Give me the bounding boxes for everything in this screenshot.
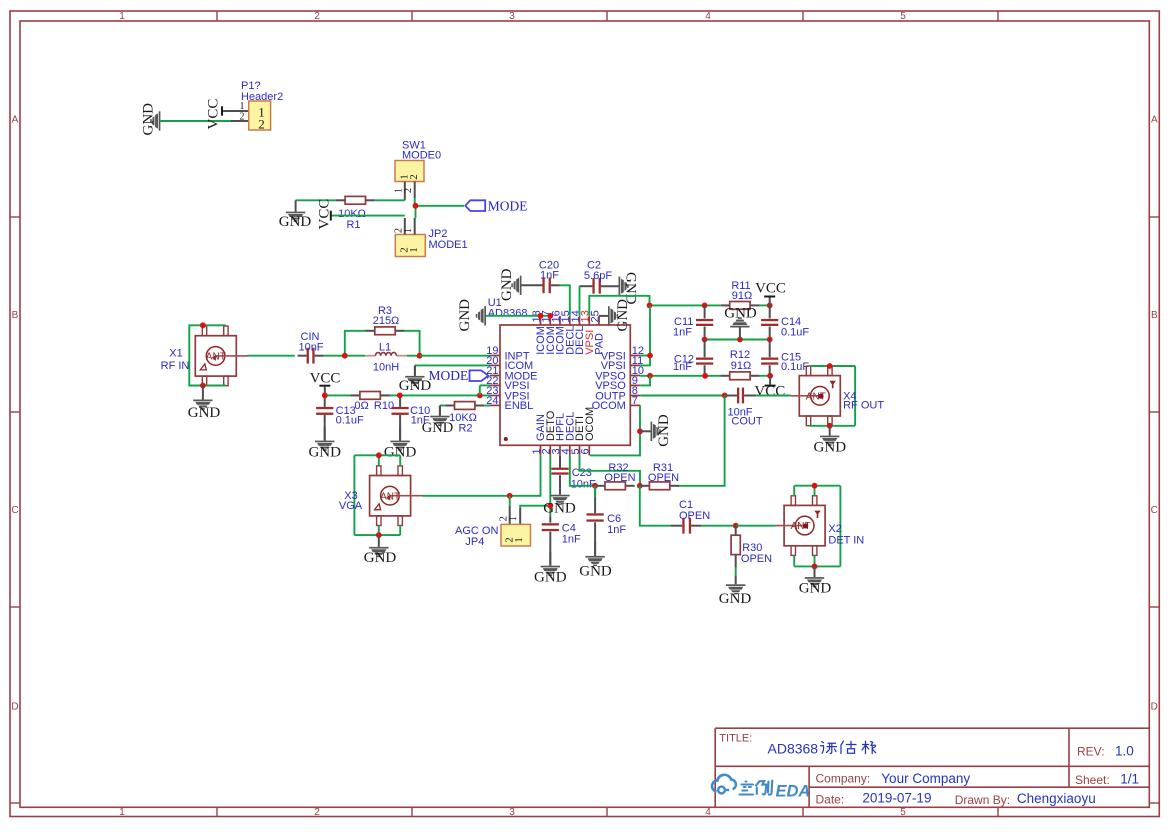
ground X2 <box>805 566 824 587</box>
ground OCOM <box>640 430 651 432</box>
ground PAD pin25 <box>599 315 608 317</box>
node rail1 left <box>647 303 653 309</box>
wire rail2 <box>705 339 770 341</box>
svg-text:6: 6 <box>580 448 592 454</box>
node pin18 <box>538 313 544 319</box>
wire OCOM down <box>590 405 640 455</box>
wire DECL to R32 <box>570 455 595 485</box>
capacitor C1 OPEN <box>670 525 682 527</box>
svg-text:X2: X2 <box>828 523 841 535</box>
svg-text:GND: GND <box>615 299 631 332</box>
wire X3 bottom <box>354 534 400 536</box>
ground X4 <box>820 426 839 446</box>
svg-text:GND: GND <box>457 299 473 332</box>
node rail3 C12 <box>702 373 708 379</box>
node X4 bottom <box>827 423 833 429</box>
wire COUT to X4 <box>756 395 791 397</box>
ground C20 <box>511 276 521 295</box>
svg-text:91Ω: 91Ω <box>731 360 751 372</box>
ground rail2 (inverted) <box>739 327 741 340</box>
node rail2 C11/C12 <box>702 337 708 343</box>
resistor R12 <box>720 375 729 377</box>
ground R2 <box>430 406 449 426</box>
capacitor C23 10nF <box>559 455 561 468</box>
svg-text:GND: GND <box>799 581 832 597</box>
wire OUTP <box>640 395 726 397</box>
wire CIN to L1 node <box>324 355 345 357</box>
svg-text:MODE0: MODE0 <box>402 150 441 162</box>
resistor R11 <box>720 304 729 306</box>
resistor R1 <box>336 199 345 201</box>
resistor R2 <box>445 405 454 407</box>
wire rail3 right <box>759 375 770 377</box>
wire pin22 drop <box>479 385 481 395</box>
svg-text:Chengxiaoyu: Chengxiaoyu <box>1017 791 1096 806</box>
wire X1 shield loop <box>189 325 226 385</box>
node X2 top <box>812 483 818 489</box>
svg-text:2019-07-19: 2019-07-19 <box>862 791 931 806</box>
title block <box>715 728 1149 807</box>
svg-text:2: 2 <box>314 807 320 818</box>
wire GAIN <box>510 455 541 495</box>
svg-text:MODE: MODE <box>429 368 469 383</box>
svg-text:2: 2 <box>314 11 320 22</box>
svg-text:OPEN: OPEN <box>604 472 635 484</box>
capacitor C11 1nF <box>704 305 706 318</box>
svg-text:2: 2 <box>258 117 265 132</box>
node X2 bottom <box>812 564 818 570</box>
svg-text:ENBL: ENBL <box>505 400 534 412</box>
capacitor C20 1nF <box>522 284 543 286</box>
node rail3 VCC <box>767 373 773 379</box>
svg-text:C23: C23 <box>572 467 592 479</box>
node rail1 C11 <box>702 303 708 309</box>
ground C6 <box>585 542 604 566</box>
ground C13 <box>315 427 334 451</box>
U1 left pins 19-24 <box>490 355 500 357</box>
VCC power P1 <box>221 106 223 115</box>
svg-text:1: 1 <box>119 807 125 818</box>
svg-text:7: 7 <box>632 395 638 407</box>
node L1 right node <box>417 353 423 359</box>
svg-text:GND: GND <box>656 414 672 447</box>
node C10 node <box>397 393 403 399</box>
node pin12 node <box>647 353 653 359</box>
antenna X1 <box>195 326 247 386</box>
svg-text:R1: R1 <box>346 219 360 231</box>
ground P1 <box>150 111 160 130</box>
wire X3 ANT out <box>422 495 510 497</box>
wire DETO down <box>549 455 551 516</box>
svg-text:MODE1: MODE1 <box>429 239 468 251</box>
ground R1 <box>296 199 298 201</box>
svg-text:GND: GND <box>499 268 515 301</box>
svg-text:RF IN: RF IN <box>161 360 190 372</box>
wire OUTP to R31 <box>679 396 725 486</box>
wire VPSI rail pin23 <box>325 394 490 396</box>
svg-text:Drawn By:: Drawn By: <box>955 793 1010 807</box>
svg-text:Your Company: Your Company <box>881 771 970 786</box>
svg-text:Header2: Header2 <box>241 91 283 103</box>
antenna X4 <box>791 366 841 426</box>
svg-text:VCC: VCC <box>754 383 785 399</box>
node X4 top <box>827 363 833 369</box>
svg-text:2: 2 <box>403 188 414 193</box>
svg-text:GND: GND <box>364 550 397 566</box>
svg-text:VCC: VCC <box>755 280 786 296</box>
wire X4 top <box>809 365 855 367</box>
node AGC node <box>507 493 513 499</box>
svg-text:1nF: 1nF <box>673 326 692 338</box>
wire C20 to DECL pin15 <box>560 285 570 316</box>
svg-text:D: D <box>1151 702 1158 713</box>
wire DETI <box>580 455 641 485</box>
svg-text:3: 3 <box>509 11 515 22</box>
svg-text:EDA: EDA <box>776 783 811 801</box>
node X3 top <box>376 452 382 458</box>
net flag MODE pin21 <box>470 370 489 381</box>
svg-text:VGA: VGA <box>339 500 363 512</box>
svg-text:OCOM: OCOM <box>592 400 626 412</box>
svg-text:PAD: PAD <box>594 333 606 355</box>
capacitor COUT 10nF <box>737 388 739 404</box>
node rail2 GND <box>737 337 743 343</box>
wire rail1 right <box>759 304 770 306</box>
svg-text:GND: GND <box>579 563 612 579</box>
U1 top pins 18-13,25 <box>540 316 542 325</box>
wire pin22 VPSI <box>480 384 490 386</box>
wire X3 top <box>354 454 400 456</box>
wire R3 left <box>345 331 366 356</box>
svg-text:B: B <box>12 310 19 321</box>
node X1 bottom <box>200 383 206 389</box>
svg-text:GND: GND <box>308 445 341 461</box>
svg-text:1nF: 1nF <box>607 524 626 536</box>
U1 right pins 12-7 <box>630 355 640 357</box>
wire VPSI pin13 <box>589 296 649 316</box>
node rail3 pin10 <box>647 373 653 379</box>
svg-text:A: A <box>12 115 19 126</box>
node L1 left node <box>342 353 348 359</box>
node VCC node <box>322 393 328 399</box>
svg-text:0Ω: 0Ω <box>354 400 368 412</box>
svg-text:215Ω: 215Ω <box>373 315 400 327</box>
wire L1 right <box>407 355 420 357</box>
svg-text:2: 2 <box>240 112 245 123</box>
node OUTP node <box>722 393 728 399</box>
svg-text:RF OUT: RF OUT <box>843 399 884 411</box>
svg-text:X1: X1 <box>169 348 182 360</box>
svg-text:GND: GND <box>141 103 157 136</box>
resistor R32 <box>596 485 605 487</box>
svg-text:1: 1 <box>513 537 525 543</box>
wire pin9 drop <box>640 376 650 386</box>
wire to U1 INPT pin19 <box>420 355 490 357</box>
svg-text:L1: L1 <box>379 341 391 353</box>
svg-text:OPEN: OPEN <box>741 553 772 565</box>
wire R2 left <box>440 405 445 407</box>
capacitor C10 <box>399 398 401 407</box>
svg-text:AD8368: AD8368 <box>488 308 528 320</box>
svg-text:MODE: MODE <box>488 198 528 213</box>
wire pin12 <box>640 355 650 357</box>
svg-text:4: 4 <box>705 11 711 22</box>
wire pin11 drop <box>640 305 650 365</box>
resistor R10 <box>351 394 360 396</box>
wire R1 to SW1.1 <box>375 199 405 201</box>
wire L1 left <box>345 355 365 357</box>
capacitor C4 1nF <box>549 516 551 522</box>
connector JP2 MODE1 <box>395 235 425 257</box>
svg-text:GND: GND <box>543 501 576 517</box>
wire X2 bottom <box>794 565 840 567</box>
wire R3 right <box>404 331 419 356</box>
svg-text:TITLE:: TITLE: <box>719 733 752 745</box>
node rail1 VCC <box>767 303 773 309</box>
svg-text:1: 1 <box>403 228 414 233</box>
svg-text:GND: GND <box>814 439 847 455</box>
svg-text:OPEN: OPEN <box>679 510 710 522</box>
net flag MODE <box>465 200 485 211</box>
svg-text:REV:: REV: <box>1077 745 1105 759</box>
svg-text:2: 2 <box>408 174 420 180</box>
capacitor C15 0.1uF <box>769 340 771 358</box>
svg-text:GND: GND <box>422 420 453 436</box>
resistor R30 OPEN <box>735 526 737 536</box>
wire to X2 <box>736 525 776 527</box>
svg-text:Sheet:: Sheet: <box>1075 773 1110 787</box>
svg-text:0.1uF: 0.1uF <box>336 414 364 426</box>
svg-text:1nF: 1nF <box>673 361 692 373</box>
svg-text:C: C <box>11 505 18 516</box>
wire pin20 ICOM <box>415 364 490 366</box>
EasyEDA logo <box>712 775 736 794</box>
capacitor CIN 10nF <box>298 355 307 357</box>
ground X3 <box>369 535 388 557</box>
ground X1 <box>193 386 212 410</box>
switch SW1 MODE0 <box>395 161 424 182</box>
wire GND to R1 <box>297 199 336 201</box>
svg-text:10nH: 10nH <box>373 362 399 374</box>
svg-text:1.0: 1.0 <box>1115 744 1134 759</box>
svg-text:5: 5 <box>900 11 906 22</box>
wire JP4 pin1 <box>520 506 550 508</box>
svg-text:91Ω: 91Ω <box>732 290 752 302</box>
wire X4 right rail <box>854 366 856 426</box>
svg-text:1/1: 1/1 <box>1120 771 1139 786</box>
VCC power rail <box>319 385 330 387</box>
node rail2 C14/C15 <box>767 337 773 343</box>
VCC power R11 <box>764 296 775 298</box>
antenna X3 <box>370 466 422 526</box>
svg-text:R10: R10 <box>374 400 394 412</box>
svg-text:10nF: 10nF <box>571 479 596 491</box>
svg-text:1nF: 1nF <box>562 533 581 545</box>
svg-text:VCC: VCC <box>317 199 333 230</box>
connector P1 Header2 <box>160 120 230 122</box>
svg-text:10nF: 10nF <box>298 342 323 354</box>
svg-text:GND: GND <box>719 591 752 607</box>
capacitor C13 <box>324 398 326 407</box>
node R32/R31 node <box>637 483 643 489</box>
ground C23 <box>550 495 569 505</box>
svg-text:R2: R2 <box>458 422 472 434</box>
node OCOM GND node <box>637 428 643 434</box>
connector JP4 AGC ON <box>509 496 511 506</box>
VCC power R12 <box>769 376 771 385</box>
node X1 top <box>200 322 206 328</box>
ground R30 <box>726 584 745 594</box>
ground C2 <box>619 277 629 296</box>
inductor L1 10nH <box>365 355 376 357</box>
wire C1 to R30 <box>701 525 735 527</box>
wire X2 top <box>794 485 840 487</box>
ground R1 <box>286 200 305 222</box>
svg-text:DET IN: DET IN <box>828 535 864 547</box>
svg-text:4: 4 <box>705 807 711 818</box>
wire SW1.2 down <box>414 198 416 206</box>
svg-text:OCOM: OCOM <box>584 407 596 441</box>
svg-text:3: 3 <box>509 807 515 818</box>
svg-text:GND: GND <box>724 306 757 322</box>
node pin17 <box>547 313 553 319</box>
node DET node <box>733 523 739 529</box>
svg-text:OPEN: OPEN <box>648 472 679 484</box>
svg-text:C: C <box>1151 505 1158 516</box>
svg-text:1: 1 <box>508 516 519 521</box>
wire X2 right rail <box>839 486 841 567</box>
capacitor C6 1nF <box>594 486 596 513</box>
svg-text:1nF: 1nF <box>540 270 559 282</box>
wire to MODE flag <box>416 205 465 207</box>
svg-text:Date:: Date: <box>816 792 845 806</box>
svg-text:VCC: VCC <box>310 370 341 386</box>
wire X3 left rail <box>353 455 355 535</box>
svg-text:A: A <box>1151 115 1158 126</box>
resistor R31 <box>640 485 649 487</box>
svg-text:VCC: VCC <box>206 99 222 130</box>
resistor R3 <box>366 330 375 332</box>
svg-text:GND: GND <box>399 378 432 394</box>
VCC power JP2 <box>330 211 332 221</box>
svg-text:1: 1 <box>119 11 125 22</box>
wire ICOM pins 18/17 to GND <box>486 315 550 317</box>
svg-text:Company:: Company: <box>816 772 871 786</box>
svg-text:1: 1 <box>408 247 420 253</box>
node X3 bottom <box>376 532 382 538</box>
wire to JP2.1 <box>415 206 417 218</box>
wire X4 bottom <box>809 425 855 427</box>
capacitor C14 0.1uF <box>769 305 771 318</box>
svg-text:GND: GND <box>534 570 567 586</box>
svg-text:0.1uF: 0.1uF <box>781 361 809 373</box>
node pin22 node <box>477 393 483 399</box>
wire X1 to CIN <box>247 355 294 357</box>
node R32 left node <box>592 483 598 489</box>
svg-text:COUT: COUT <box>731 416 762 428</box>
wire R2 right <box>484 405 490 407</box>
wire DECL pin14 up <box>579 286 581 316</box>
ground U1 ICOM <box>476 306 486 325</box>
ground C10 <box>390 427 409 451</box>
svg-text:5.6pF: 5.6pF <box>584 270 612 282</box>
capacitor C12 1nF <box>704 340 706 358</box>
wire rail3 left <box>640 375 720 377</box>
svg-text:GND: GND <box>279 214 312 230</box>
svg-text:24: 24 <box>486 395 498 407</box>
svg-text:D: D <box>11 702 18 713</box>
op-amp U1 AD8368 body <box>500 325 630 445</box>
svg-text:B: B <box>1151 310 1158 321</box>
antenna X2 <box>776 496 826 556</box>
wire rail1 left <box>650 304 721 306</box>
U1 bottom pins 1-6 <box>540 445 542 455</box>
node C4 node <box>547 503 553 509</box>
svg-text:AD8368: AD8368 <box>768 741 819 757</box>
ground C4 <box>541 552 560 576</box>
svg-text:5: 5 <box>900 807 906 818</box>
ground pin20 <box>405 365 424 386</box>
wire to C1 <box>640 486 671 526</box>
svg-text:JP4: JP4 <box>465 536 484 548</box>
svg-text:0.1uF: 0.1uF <box>781 326 809 338</box>
svg-text:GND: GND <box>188 405 221 421</box>
wire VCC to JP2.2 <box>332 215 405 217</box>
node MODE junction <box>413 203 419 209</box>
